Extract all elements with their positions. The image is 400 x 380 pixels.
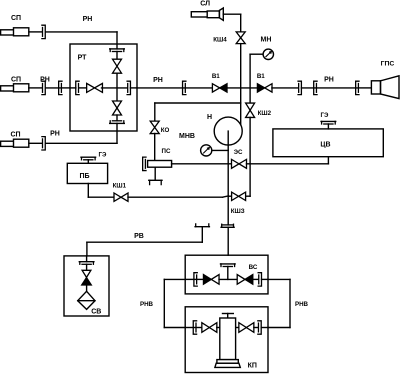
svg-text:РН: РН — [153, 77, 163, 84]
svg-text:ПБ: ПБ — [79, 173, 89, 180]
svg-text:СП: СП — [11, 15, 21, 22]
svg-text:В1: В1 — [212, 73, 220, 80]
svg-text:СП: СП — [11, 77, 21, 84]
svg-text:РН: РН — [324, 77, 334, 84]
svg-text:РВ: РВ — [134, 233, 144, 240]
svg-text:В1: В1 — [257, 73, 265, 80]
svg-text:ВС: ВС — [249, 264, 258, 271]
svg-text:Н: Н — [207, 114, 212, 121]
svg-text:ГЭ: ГЭ — [99, 152, 108, 159]
svg-text:ГЭ: ГЭ — [321, 112, 330, 119]
svg-text:КШ1: КШ1 — [113, 183, 127, 190]
svg-text:МН: МН — [261, 37, 272, 44]
svg-text:РН: РН — [50, 131, 60, 138]
svg-text:РН: РН — [40, 77, 50, 84]
svg-text:КШ4: КШ4 — [213, 37, 227, 44]
svg-text:РНВ: РНВ — [295, 301, 309, 308]
svg-text:СЛ: СЛ — [200, 0, 210, 7]
svg-text:ЭС: ЭС — [234, 149, 243, 156]
svg-text:КО: КО — [161, 127, 170, 134]
svg-text:РТ: РТ — [78, 55, 88, 62]
svg-text:ГПС: ГПС — [381, 61, 395, 68]
svg-text:КП: КП — [248, 363, 257, 370]
svg-text:ЦВ: ЦВ — [320, 142, 330, 149]
svg-text:КШЗ: КШЗ — [231, 208, 245, 215]
svg-text:СВ: СВ — [91, 309, 101, 316]
svg-text:СП: СП — [10, 132, 20, 139]
svg-text:ПС: ПС — [162, 148, 171, 155]
svg-text:КШ2: КШ2 — [258, 110, 272, 117]
svg-text:РН: РН — [83, 16, 93, 23]
svg-text:РНВ: РНВ — [140, 301, 154, 308]
svg-text:МНВ: МНВ — [179, 133, 195, 140]
